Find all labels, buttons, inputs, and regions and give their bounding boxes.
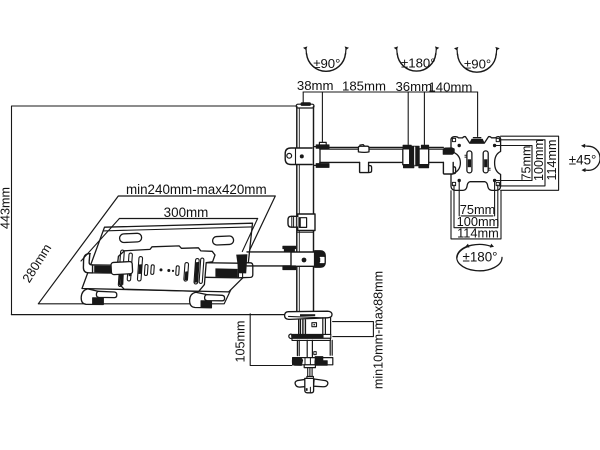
svg-text:100mm: 100mm <box>532 139 546 181</box>
svg-text:140mm: 140mm <box>428 79 472 94</box>
svg-text:±90°: ±90° <box>464 57 491 72</box>
svg-text:36mm: 36mm <box>395 79 432 94</box>
svg-text:114mm: 114mm <box>545 139 559 180</box>
svg-text:±180°: ±180° <box>401 56 436 71</box>
svg-text:±45°: ±45° <box>569 153 597 168</box>
svg-text:±180°: ±180° <box>462 250 497 265</box>
svg-text:38mm: 38mm <box>297 78 334 93</box>
svg-text:300mm: 300mm <box>164 205 209 220</box>
svg-text:±90°: ±90° <box>313 56 340 71</box>
svg-text:105mm: 105mm <box>233 321 247 363</box>
svg-text:min240mm-max420mm: min240mm-max420mm <box>126 182 267 197</box>
svg-text:443mm: 443mm <box>0 187 12 229</box>
svg-text:114mm: 114mm <box>457 225 499 240</box>
svg-text:min10mm-max88mm: min10mm-max88mm <box>371 271 385 389</box>
svg-text:185mm: 185mm <box>342 79 386 94</box>
